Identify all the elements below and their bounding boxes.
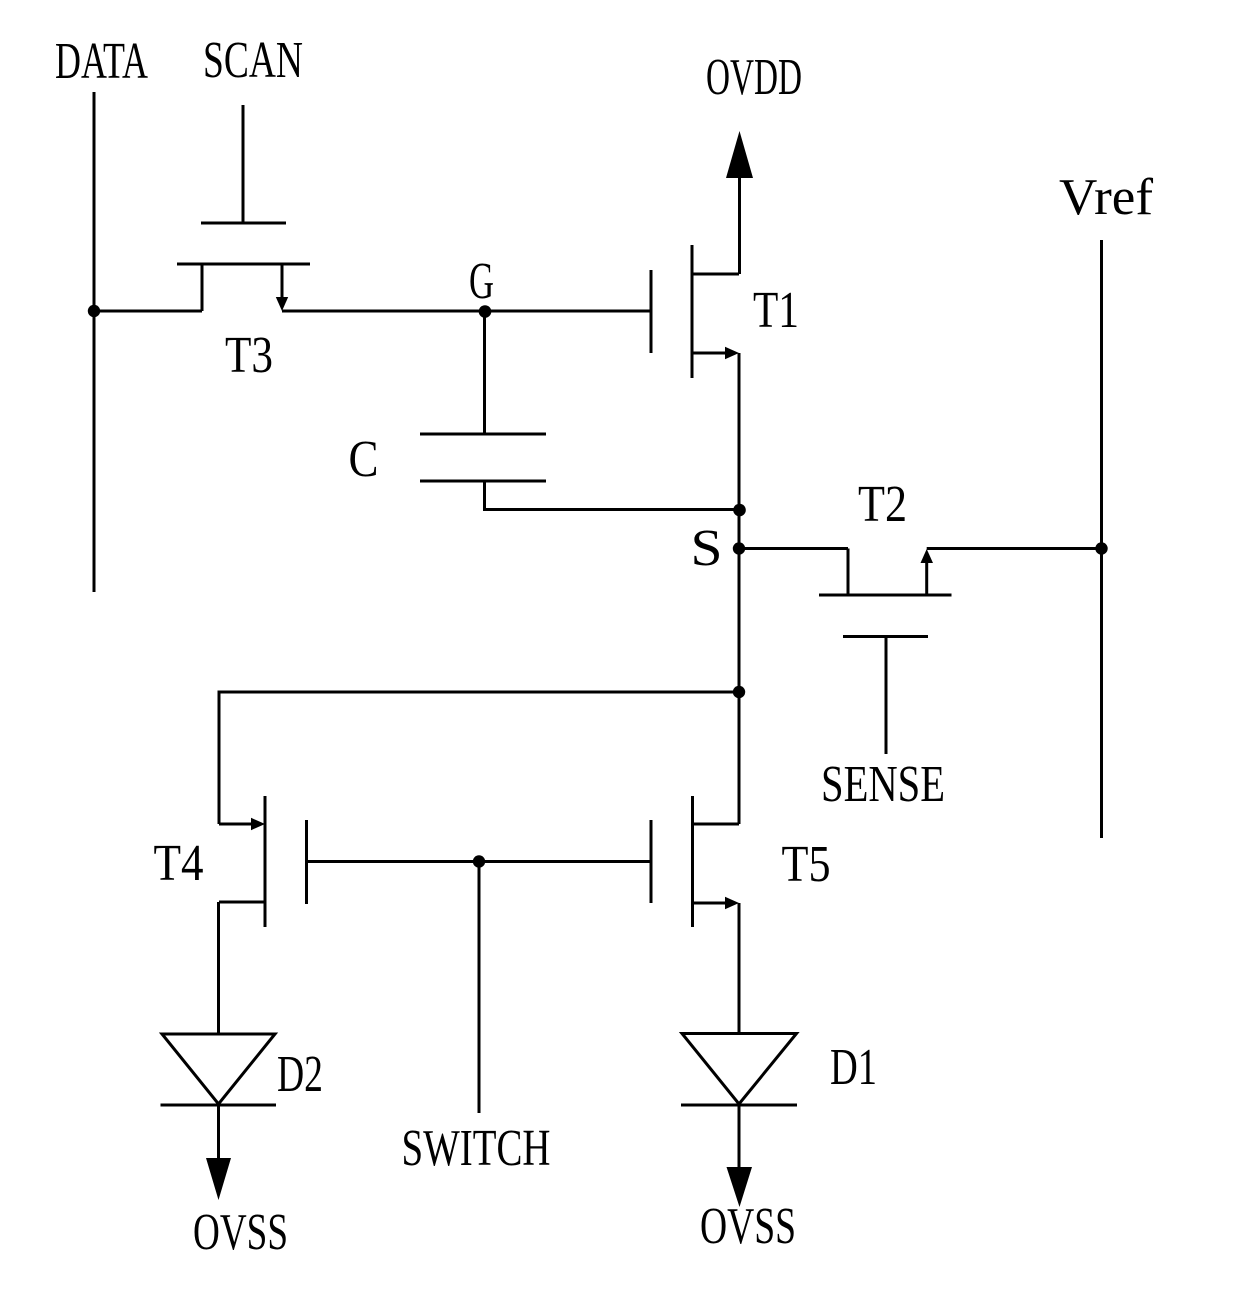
OVSS arrow left <box>206 1105 231 1200</box>
OVSS arrow right <box>727 1105 753 1207</box>
wire <box>739 547 848 550</box>
node G <box>479 305 492 318</box>
wire <box>927 547 1101 550</box>
svg-text:SWITCH: SWITCH <box>402 1120 551 1177</box>
diode D2 <box>161 1034 277 1105</box>
node: T4 branch junction <box>733 686 745 698</box>
transistor T2 <box>819 549 952 755</box>
svg-text:S: S <box>691 520 723 577</box>
wire <box>282 310 651 313</box>
wire: main vertical <box>738 353 741 824</box>
gate wire <box>307 860 652 863</box>
svg-text:D2: D2 <box>277 1046 323 1103</box>
node: DATA junction <box>88 305 100 317</box>
transistor T3 <box>177 223 310 311</box>
svg-text:T3: T3 <box>225 327 273 384</box>
wire <box>94 310 202 313</box>
wire <box>738 903 741 1034</box>
SCAN line <box>242 105 245 222</box>
svg-text:SENSE: SENSE <box>821 756 945 813</box>
node: Vref junction <box>1095 542 1107 554</box>
wire <box>217 902 220 1034</box>
node: capacitor junction <box>733 504 746 517</box>
diode D1 <box>681 1034 797 1106</box>
transistor T5 <box>651 796 739 927</box>
svg-text:C: C <box>349 431 379 488</box>
svg-text:DATA: DATA <box>55 33 148 90</box>
svg-text:T2: T2 <box>858 476 907 533</box>
wire <box>219 692 739 824</box>
capacitor C <box>420 311 739 510</box>
node S <box>733 542 745 554</box>
svg-text:T1: T1 <box>753 282 799 339</box>
DATA line <box>93 92 96 592</box>
svg-text:Vref: Vref <box>1059 169 1154 226</box>
svg-text:G: G <box>469 253 494 310</box>
node: SWITCH junction <box>473 855 485 867</box>
transistor T4 <box>219 796 307 927</box>
svg-text:OVSS: OVSS <box>700 1198 796 1255</box>
svg-text:D1: D1 <box>830 1039 877 1096</box>
OVDD arrow <box>726 131 753 274</box>
SWITCH line <box>478 862 481 1114</box>
transistor T1 <box>651 245 739 378</box>
svg-text:SCAN: SCAN <box>203 32 303 89</box>
svg-text:T4: T4 <box>154 835 204 892</box>
svg-text:OVDD: OVDD <box>706 49 802 106</box>
Vref line <box>1100 240 1103 838</box>
svg-text:T5: T5 <box>782 836 831 893</box>
svg-text:OVSS: OVSS <box>193 1204 288 1261</box>
